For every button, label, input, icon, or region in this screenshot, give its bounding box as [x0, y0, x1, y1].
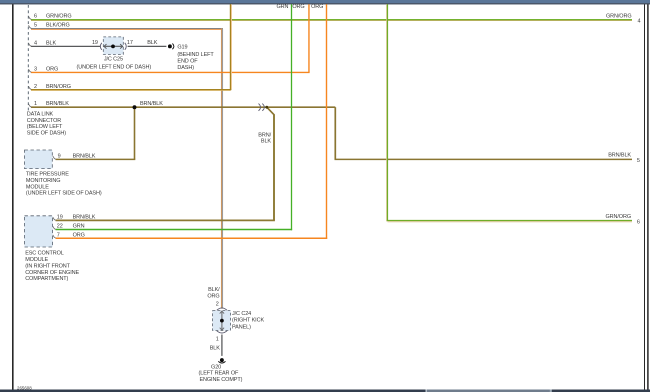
svg-text:(RIGHT KICK: (RIGHT KICK [232, 318, 264, 324]
svg-text:GRN/ORG: GRN/ORG [46, 13, 72, 19]
svg-text:BLK: BLK [147, 40, 158, 46]
svg-text:(LEFT REAR OF: (LEFT REAR OF [199, 371, 239, 377]
svg-text:GRN/ORG: GRN/ORG [605, 214, 631, 220]
svg-text:BRN/BLK: BRN/BLK [46, 101, 69, 107]
svg-text:ENGINE COMPT): ENGINE COMPT) [199, 377, 242, 383]
svg-text:END OF: END OF [177, 59, 198, 65]
svg-text:BRN/BLK: BRN/BLK [608, 153, 631, 159]
svg-text:MONITORING: MONITORING [26, 178, 61, 184]
svg-text:(UNDER LEFT SIDE OF DASH): (UNDER LEFT SIDE OF DASH) [26, 191, 102, 197]
svg-text:CONNECTOR: CONNECTOR [27, 118, 61, 124]
svg-text:1: 1 [34, 101, 37, 107]
svg-text:2: 2 [34, 84, 37, 90]
svg-text:7: 7 [57, 232, 60, 238]
svg-text:BRN/BLK: BRN/BLK [73, 215, 96, 221]
svg-text:6: 6 [34, 13, 37, 19]
svg-text:SIDE OF DASH): SIDE OF DASH) [27, 131, 66, 137]
svg-text:ORG: ORG [46, 66, 58, 72]
svg-text:J/C C24: J/C C24 [232, 311, 251, 317]
svg-text:BRN/ORG: BRN/ORG [46, 84, 71, 90]
svg-text:5: 5 [34, 22, 37, 28]
svg-text:BLK/ORG: BLK/ORG [46, 22, 70, 28]
svg-text:17: 17 [127, 40, 133, 46]
svg-text:CORNER OF ENGINE: CORNER OF ENGINE [25, 270, 79, 276]
svg-text:(UNDER LEFT END OF DASH): (UNDER LEFT END OF DASH) [77, 64, 152, 70]
svg-text:ORG: ORG [292, 4, 304, 10]
svg-text:4: 4 [638, 18, 641, 24]
svg-text:1: 1 [216, 336, 219, 342]
svg-text:ORG: ORG [73, 232, 85, 238]
svg-text:BRN/: BRN/ [258, 132, 271, 138]
svg-text:ORG: ORG [207, 294, 219, 300]
svg-text:BRN/BLK: BRN/BLK [140, 101, 163, 107]
svg-text:GRN/ORG: GRN/ORG [606, 13, 632, 19]
svg-text:(IN RIGHT FRONT: (IN RIGHT FRONT [25, 263, 70, 269]
svg-text:2: 2 [216, 301, 219, 307]
svg-text:22: 22 [57, 224, 63, 230]
svg-text:COMPARTMENT): COMPARTMENT) [25, 276, 68, 282]
svg-text:19: 19 [57, 215, 63, 221]
svg-text:J/C C25: J/C C25 [104, 57, 123, 63]
svg-text:GRN: GRN [73, 224, 85, 230]
svg-text:DATA LINK: DATA LINK [27, 112, 54, 118]
svg-text:DASH): DASH) [177, 65, 194, 71]
svg-text:MODULE: MODULE [26, 184, 49, 190]
svg-text:BLK: BLK [261, 139, 272, 145]
svg-text:5: 5 [637, 158, 640, 164]
svg-text:ORG: ORG [311, 4, 323, 10]
svg-text:ESC CONTROL: ESC CONTROL [25, 251, 64, 257]
svg-text:BLK: BLK [46, 40, 57, 46]
svg-text:4: 4 [34, 40, 37, 46]
svg-text:6: 6 [637, 219, 640, 225]
svg-text:(BELOW LEFT: (BELOW LEFT [27, 124, 63, 130]
svg-text:265608: 265608 [17, 385, 32, 390]
svg-text:9: 9 [58, 154, 61, 160]
svg-text:GRN: GRN [276, 4, 288, 10]
svg-text:G19: G19 [177, 44, 187, 50]
svg-text:BLK: BLK [210, 345, 221, 351]
svg-text:(BEHIND LEFT: (BEHIND LEFT [177, 52, 214, 58]
svg-text:MODULE: MODULE [25, 257, 48, 263]
svg-text:TIRE PRESSURE: TIRE PRESSURE [26, 172, 69, 178]
svg-text:3: 3 [34, 66, 37, 72]
svg-text:19: 19 [92, 40, 98, 46]
svg-text:PANEL): PANEL) [232, 324, 251, 330]
svg-text:BRN/BLK: BRN/BLK [73, 154, 96, 160]
svg-text:BLK/: BLK/ [208, 287, 220, 293]
